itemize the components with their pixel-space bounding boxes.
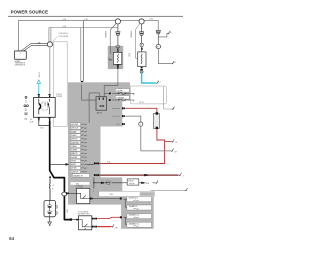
wire fuse row to red feed [87,163,94,165]
heading rule [8,15,183,18]
label starter relay [78,211,90,216]
connector inline branch1 [116,32,121,36]
svg-text:(W/ THEFT DET.): (W/ THEFT DET.) [78,213,90,215]
pin relay bottom right [49,117,51,120]
connector off-page red bottom [111,224,118,229]
svg-text:1J: 1J [158,82,160,84]
svg-text:30A AM2: 30A AM2 [104,31,107,38]
fuse F1 in G1 [113,46,121,65]
label trunk connector [66,209,69,212]
title POWER SOURCE [11,9,49,14]
relay ST box [77,188,90,203]
wire junction to relay [49,48,51,94]
svg-text:30A AM1: 30A AM1 [130,31,133,38]
pin R/B right 1 [122,107,125,109]
fusible link FL2 [153,112,159,129]
wire branch1 stem [117,24,119,32]
wire red maroon long [94,174,178,176]
label pointer and wire codes [52,33,68,47]
wire branch2 second lead [135,24,139,59]
fuse F2 [138,47,146,67]
wire branch to J/B fuse [50,163,66,165]
pin R/B right 2 [122,115,125,117]
svg-text:W-B: W-B [110,194,113,196]
wire red short off-page [97,226,111,228]
svg-text:16 1J: 16 1J [39,73,41,78]
wire AM2 relay loop to fuse list [89,93,99,123]
svg-text:POWER SOURCE: POWER SOURCE [11,9,49,14]
wire branch1 lower stem [117,35,119,47]
wire G3 group brackets [123,199,127,225]
wire thick ground trunk [50,121,71,220]
node fusible link junction 1 [115,19,120,24]
white panel fuse strip [130,86,166,104]
wire ST coil drop [93,177,95,192]
wire pair to relay block [81,21,84,81]
connector off-page branch3 lower [171,61,176,64]
wire branch1 second lead [110,24,116,55]
junction block lower right G3 [121,194,154,229]
engine room R/B main gray [68,82,130,204]
svg-text:EA1: EA1 [66,209,69,212]
pin chain 2 [141,182,144,184]
connector off-page starter [146,181,158,186]
pin G3 row3 [120,216,122,218]
wire panel to off-page [164,86,172,109]
svg-text:4: 4 [93,190,94,192]
fuse row ETCS [108,96,134,102]
box noise filter chain [127,179,139,185]
connector off-page bottom right [184,188,187,191]
relay dashed label box [42,102,48,110]
box ignition switch column [54,42,68,127]
svg-text:64: 64 [9,236,15,241]
fuse row bottom wide [72,174,89,178]
wire branch2 lower stem [141,35,143,43]
node trunk junction [49,176,51,178]
pin chain 1 [101,182,104,184]
wire double lead to alternator [21,44,47,52]
connector off-page branch3 upper [167,31,172,34]
label branch1 rating [104,31,107,38]
label FL MAIN [109,58,113,62]
relay AM2 box [96,97,107,115]
label G1 terminals [128,53,131,57]
battery [44,201,57,217]
svg-text:C14 (W-L): C14 (W-L) [58,33,68,35]
label strip in J/B [71,182,90,185]
svg-text:2: 2 [183,176,184,178]
connector off-page red upper [171,139,178,144]
label branch2 rating [130,31,133,38]
label relay ST [76,185,84,190]
wire red stub off-page [165,141,171,143]
pin relay top left [38,94,40,97]
connector arrow cyan feed [37,80,41,84]
wire cyan AM1 out [142,71,156,83]
svg-text:1: 1 [20,53,21,55]
wire branch3 stub to off-page [158,33,167,37]
wire branch3 to off-page lower [158,49,171,64]
connector off-page gray [170,149,177,154]
svg-text:b: b [52,188,53,190]
connector inline oval on trunk [61,192,67,196]
ground battery [48,217,52,226]
svg-text:GENERATOR: GENERATOR [15,63,26,66]
label terminal column [24,96,28,106]
label relay pins right [56,94,63,98]
svg-text:1: 1 [186,189,187,191]
relay coil element [39,99,41,115]
connector off-page cyan [155,81,160,84]
pin F1 bottom [117,64,119,68]
connector pin oval branch2 [140,43,143,50]
wire cyan to relay [38,84,40,94]
node noise filter circle [156,44,160,48]
relay IG box [34,98,56,118]
svg-text:W-B: W-B [76,183,79,185]
page number [9,236,15,241]
fuse rows junction block G3 [127,197,152,228]
wire F1 to AM2 relay [104,69,123,97]
pin F2 bottom [140,67,143,74]
relay contact element [48,99,50,115]
wire starter chain [94,182,155,184]
wire main bus B+ [19,21,159,51]
alternator box [14,51,26,59]
wire top pin to AM2 relay [82,85,97,100]
relay starter box [79,216,92,231]
pin J/B lower left [66,192,69,194]
pin starter relay right top [92,218,97,220]
wire to off-page bottom right [151,189,185,191]
connector off-page maroon [178,173,183,178]
fuse row EFI [105,89,134,95]
wire gray net to off-page [125,116,170,151]
svg-text:IG2: IG2 [43,103,45,106]
relay block FL box G1 [108,46,123,69]
svg-text:3 (W-R): 3 (W-R) [56,96,63,98]
wire red to junction block [97,217,120,218]
pin relay bottom left [38,117,40,120]
svg-text:30A AM2 ST: 30A AM2 ST [73,174,84,177]
box long connector strip [99,191,154,196]
wire branch2 stem [141,24,143,32]
pin J/B left input [65,163,68,165]
svg-text:C15 (W-R): C15 (W-R) [58,36,68,38]
pin ST relay right [90,197,121,199]
node B tick labels [37,18,153,44]
svg-text:7.5A AM2: 7.5A AM2 [116,97,124,100]
label cyan feed [39,73,41,78]
node fusible link junction 2 [139,19,144,24]
connector chain inline [107,181,111,184]
node circle component [139,122,143,126]
pin R/B right 3 [122,123,125,125]
wire into ST relay [69,192,77,194]
node A junction circle [47,42,52,47]
wire pins right feeds [112,108,120,124]
svg-text:(2.0L ENG): (2.0L ENG) [76,187,84,189]
alternator caption [15,60,26,67]
wire to battery with splice squiggle [49,178,55,200]
wire red FL2 down and back [99,129,164,163]
pin starter relay right bottom [92,226,97,228]
pin relay top right [49,94,51,97]
connector inline branch2 [139,32,144,36]
pin relay block top [81,81,83,84]
svg-text:15A EFI: 15A EFI [116,90,123,93]
wire red EFI main [125,108,157,113]
fuse list engine room J/B [70,123,86,174]
label relay pins left [30,119,34,123]
connector inline branch3 [156,30,161,34]
label red wire [107,161,111,163]
wire relay left pin to ground trunk [39,121,50,130]
svg-text:1: 1 [173,108,174,110]
pin red feed left [94,162,99,164]
pin G3 row1 [120,198,122,200]
pin starter relay left junction [70,218,79,220]
svg-text:FL: FL [109,58,111,60]
wire inner bus [49,28,118,42]
wire branch3 stem [157,34,159,45]
connector off-page panel [171,107,174,110]
